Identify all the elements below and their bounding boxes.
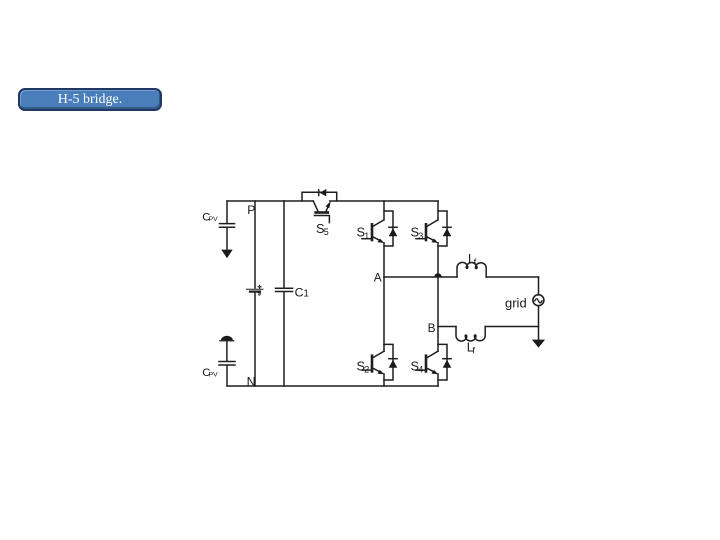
battery (PV source) — [247, 201, 264, 386]
svg-text:2: 2 — [364, 364, 369, 374]
diode D1 — [384, 211, 397, 246]
svg-text:grid: grid — [505, 296, 527, 311]
transistor S5 (IGBT, horizontal) — [313, 201, 330, 237]
transistor S2 (IGBT) — [357, 351, 385, 374]
diode D4 — [438, 344, 451, 380]
svg-text:B: B — [428, 321, 436, 335]
svg-text:A: A — [374, 270, 382, 284]
capacitor CPV (bottom) — [202, 336, 235, 386]
transistor S1 (IGBT) — [357, 220, 385, 243]
svg-text:P: P — [247, 203, 255, 217]
wire leg S1/S2 — [383, 201, 385, 386]
wire bottom rail N — [227, 385, 438, 387]
ac source (grid) — [505, 277, 544, 340]
diode D2 — [384, 344, 397, 380]
wire hop over leg S3/S4 — [435, 274, 441, 277]
transistor S4 (IGBT) — [411, 351, 439, 374]
capacitor CPV (top) — [202, 201, 234, 258]
title button H-5 bridge — [18, 88, 162, 111]
wire A to inductor — [384, 276, 457, 278]
capacitor C1 — [276, 201, 310, 386]
svg-text:4: 4 — [418, 364, 423, 374]
ground — [532, 340, 545, 348]
wire inductor to grid (bottom) — [485, 326, 538, 328]
svg-text:f: f — [472, 346, 475, 357]
svg-text:PV: PV — [209, 216, 219, 223]
svg-text:1: 1 — [303, 289, 309, 300]
svg-text:C: C — [295, 285, 304, 299]
inductor Lf (top) — [457, 252, 486, 277]
diode D3 — [438, 211, 451, 246]
svg-text:5: 5 — [324, 227, 329, 237]
diode D5 (across S5) — [302, 189, 337, 201]
svg-text:3: 3 — [418, 231, 423, 241]
inductor Lf (bottom) — [456, 327, 485, 357]
svg-text:f: f — [474, 257, 477, 268]
svg-text:PV: PV — [209, 371, 219, 378]
wire inductor to grid — [486, 276, 538, 278]
wire top rail P — [227, 200, 438, 202]
svg-text:1: 1 — [364, 231, 369, 241]
transistor S3 (IGBT) — [411, 220, 439, 243]
wire leg S3/S4 — [437, 201, 439, 386]
wire B to inductor — [438, 326, 456, 328]
